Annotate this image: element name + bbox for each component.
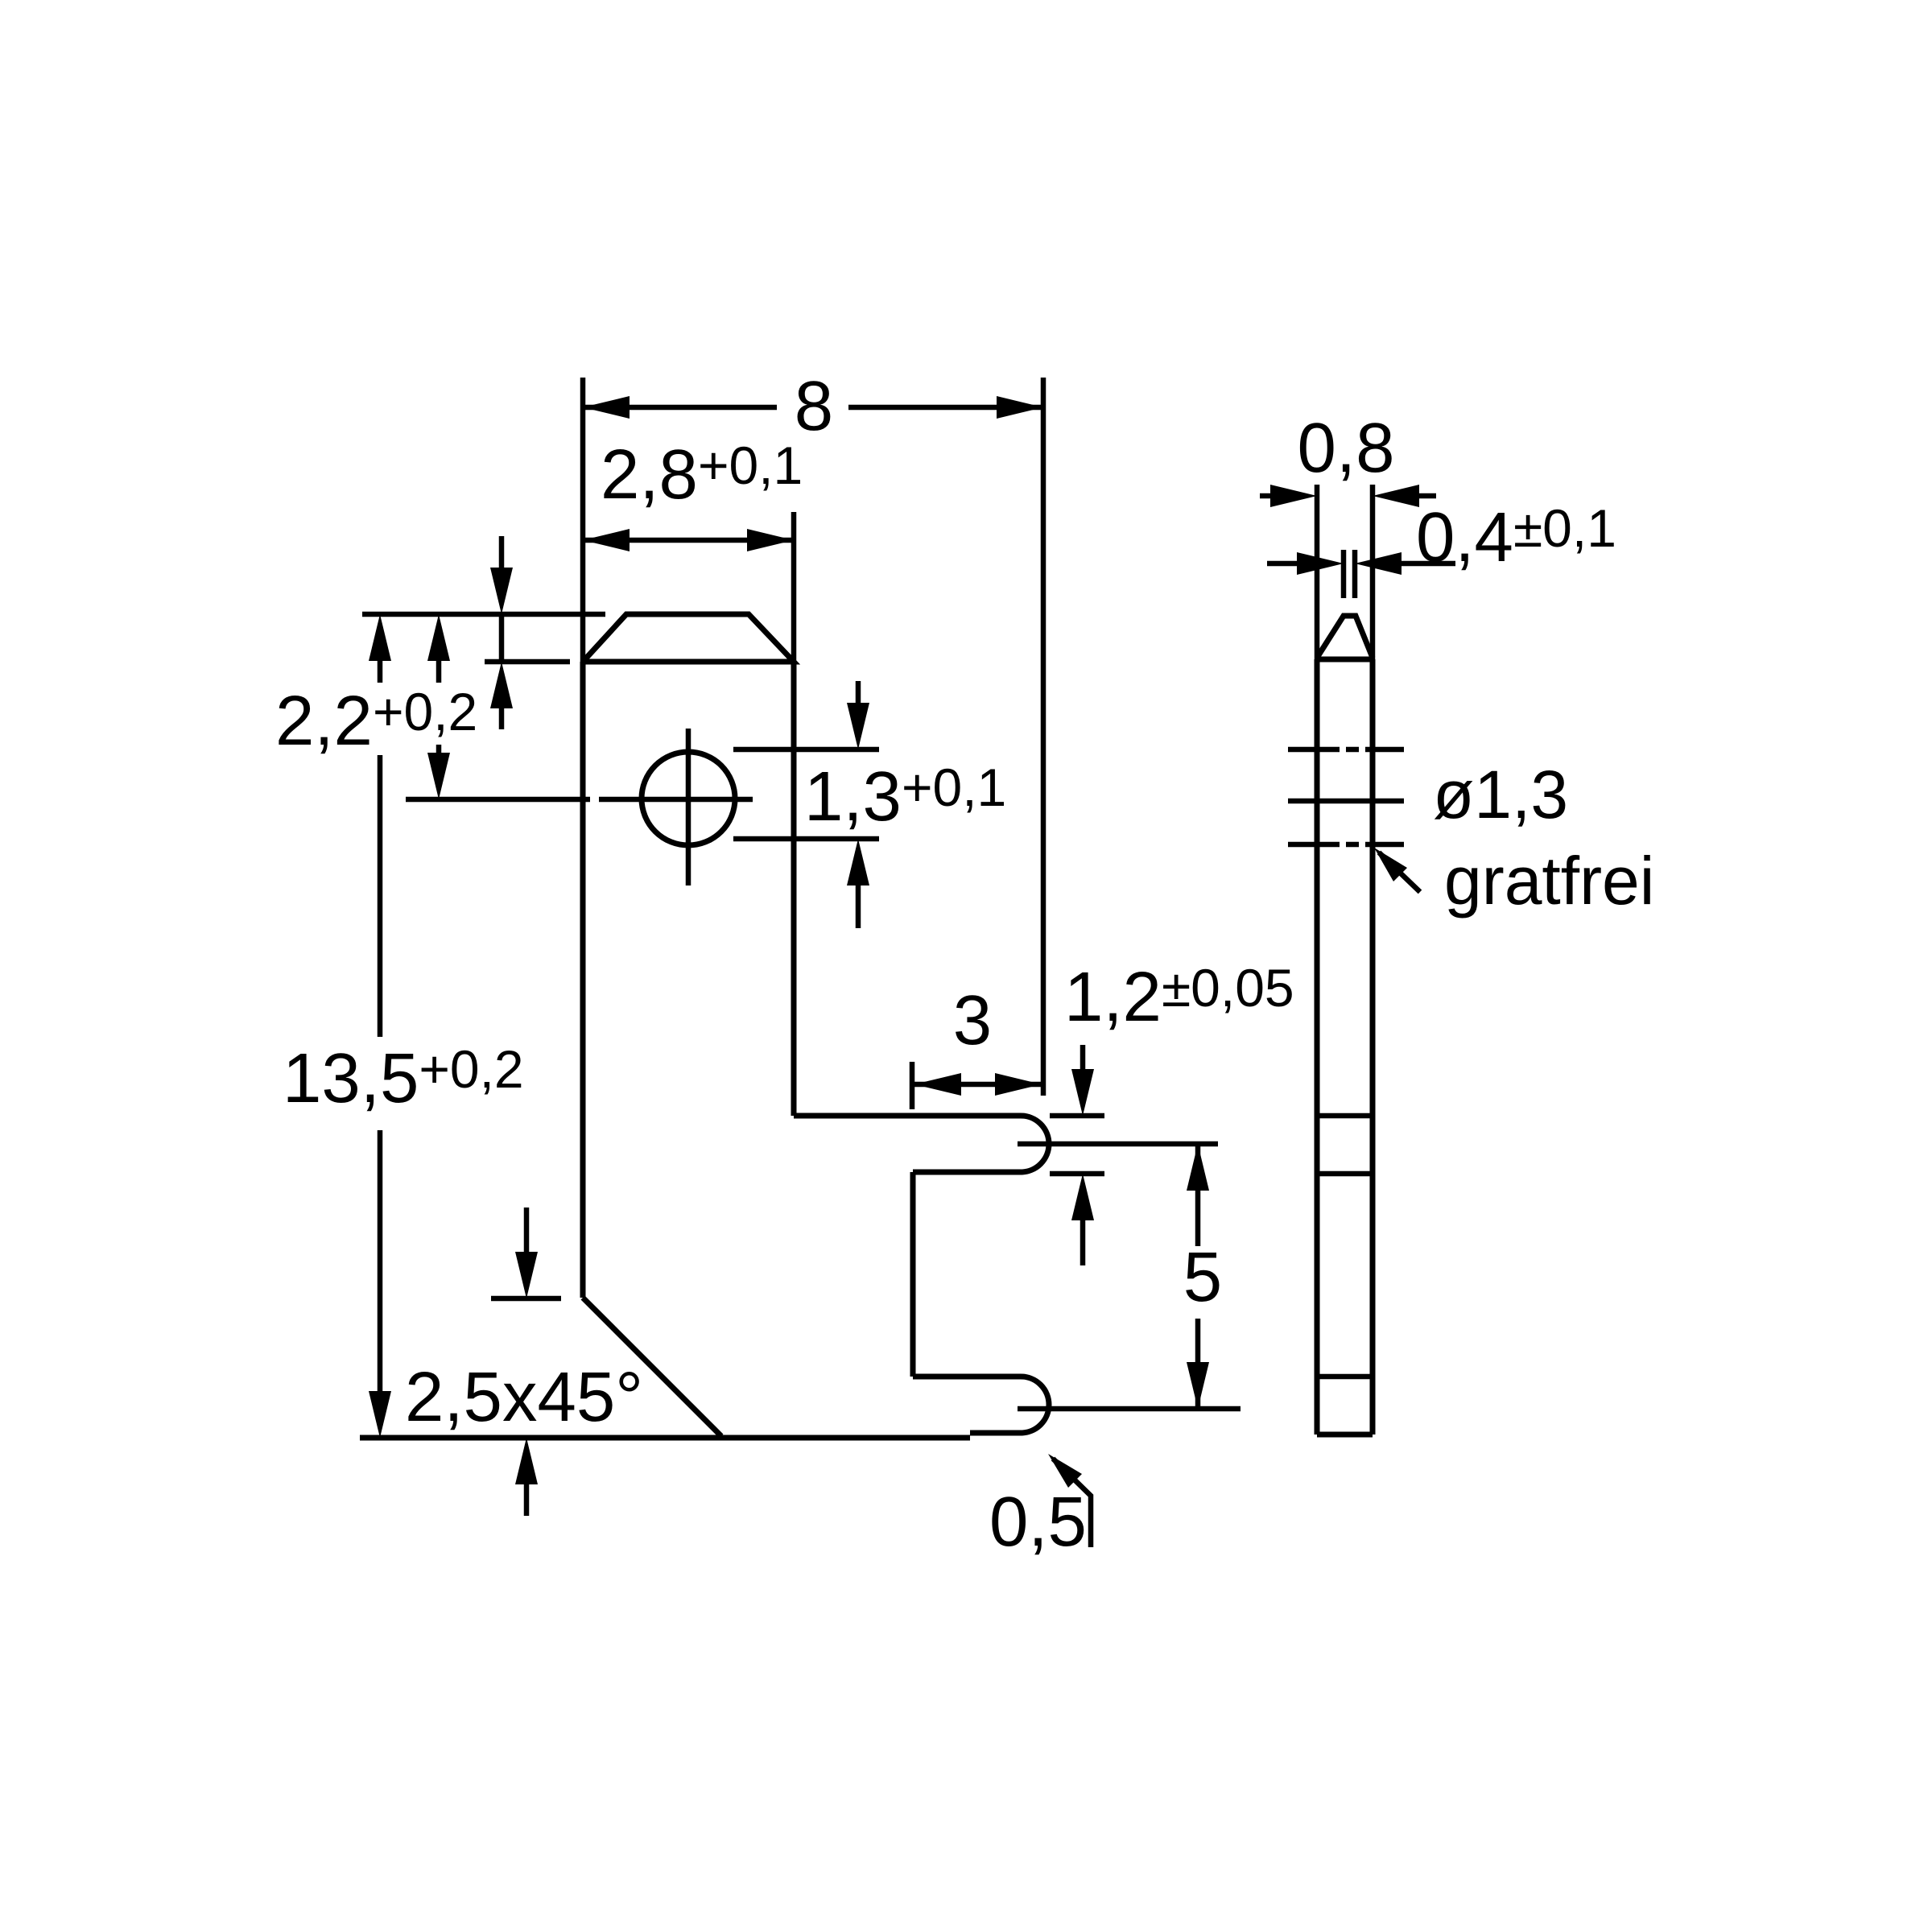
dim 2,8 arrow right xyxy=(747,529,794,551)
tab top reference line xyxy=(362,612,605,617)
lower finger bottom edge xyxy=(970,1430,1021,1436)
dim 1,3 lower extension xyxy=(733,836,879,842)
dim 3 arrow left xyxy=(914,1073,961,1096)
dim 3 tick xyxy=(910,1062,915,1109)
shoulder extension line xyxy=(485,659,570,665)
side view dash-dot line upper xyxy=(1288,747,1404,753)
dim 1,3 upper extension xyxy=(733,747,879,753)
svg-text:2,5x45°: 2,5x45° xyxy=(405,1358,643,1436)
hole crosshair horizontal xyxy=(599,797,753,803)
side view tip base line xyxy=(1317,657,1373,663)
side view finger bottom line xyxy=(1317,1171,1373,1177)
bevel down arrow above top line xyxy=(499,536,505,573)
dim 1,2 upper tick xyxy=(1050,1113,1104,1119)
side view dash-dot line lower xyxy=(1288,842,1404,848)
side view finger top line xyxy=(1317,1113,1373,1119)
chamfer tick line xyxy=(491,1296,561,1302)
svg-text:5: 5 xyxy=(1183,1238,1222,1316)
dim 2,2 down arrow at hole center xyxy=(427,753,450,799)
dim 1,2 down arrow xyxy=(1080,1045,1086,1074)
chamfer 2.5x45 xyxy=(583,1298,721,1436)
svg-text:gratfrei: gratfrei xyxy=(1444,843,1654,919)
gratfrei leader arrow xyxy=(1374,848,1407,881)
dim 2,8 line xyxy=(583,538,794,543)
tab right edge xyxy=(791,662,797,1116)
dim 5 upper tick xyxy=(1018,1141,1218,1147)
dim 2,8 arrow left xyxy=(583,529,630,551)
dim 5 lower tick xyxy=(1018,1406,1241,1412)
side view right edge xyxy=(1370,659,1376,1435)
dim 0,4 line left xyxy=(1267,561,1300,567)
svg-text:0,8: 0,8 xyxy=(1298,409,1395,487)
side view solid line middle xyxy=(1288,799,1404,804)
leader 0,5 arrow xyxy=(1048,1454,1082,1488)
dim 8 arrow right xyxy=(997,396,1043,419)
tab trapezoid head xyxy=(583,614,794,662)
svg-text:0,5: 0,5 xyxy=(989,1483,1087,1561)
slot inner edge xyxy=(910,1172,916,1377)
dim 5 up arrow xyxy=(1187,1144,1209,1191)
svg-text:8: 8 xyxy=(795,367,833,445)
dim 8 extension left xyxy=(580,378,586,662)
dim 5 line xyxy=(1195,1144,1201,1409)
dim 13,5 line middle segment xyxy=(378,755,383,1037)
gratfrei leader line xyxy=(1379,852,1420,892)
side view lower finger line xyxy=(1317,1374,1373,1380)
svg-text:3: 3 xyxy=(953,981,992,1059)
dim 0,8 line left xyxy=(1260,493,1274,499)
dim 13,5 line upper segment xyxy=(369,614,391,661)
dim 3 line xyxy=(912,1082,1042,1088)
hole center extension line xyxy=(406,797,590,803)
side view extension right xyxy=(1370,485,1376,659)
lower finger xyxy=(913,1377,1049,1433)
upper finger xyxy=(794,1116,1049,1172)
tab left edge xyxy=(580,662,586,1298)
dim 8 extension right xyxy=(1041,378,1046,1096)
chamfer up arrow below bottom xyxy=(515,1438,538,1484)
hole crosshair vertical xyxy=(686,729,691,885)
dim 8 arrow left xyxy=(583,396,630,419)
chamfer down arrow xyxy=(524,1207,530,1256)
dim 13,5 down arrow at bottom xyxy=(369,1391,391,1438)
side view pointed tip xyxy=(1317,616,1373,658)
dim 13,5 line lower segment xyxy=(378,1130,383,1393)
side view left edge xyxy=(1315,659,1320,1435)
dim 5 down arrow xyxy=(1187,1362,1209,1409)
side view extension left xyxy=(1315,485,1320,659)
dim 0,4 line right xyxy=(1355,552,1402,575)
dim 1,2 lower tick xyxy=(1050,1171,1104,1177)
dim 0,8 line right xyxy=(1373,485,1419,507)
bevel up arrow below shoulder line xyxy=(499,614,505,662)
side view bottom edge xyxy=(1317,1432,1373,1438)
dim 1,3 down arrow xyxy=(856,681,861,706)
dim 2,8 extension right xyxy=(791,512,797,662)
hole circle xyxy=(642,752,735,845)
leader 0,5 line xyxy=(1053,1459,1091,1547)
dim 1,2 up arrow xyxy=(1071,1174,1094,1220)
svg-text:ø1,3: ø1,3 xyxy=(1433,757,1568,832)
dim 1,3 up arrow xyxy=(847,839,869,885)
dim 8 line xyxy=(583,405,1043,411)
dim 2,2 up arrow at top line xyxy=(427,614,450,661)
dim 3 arrow right xyxy=(995,1073,1042,1096)
dim 0,4 sheet ticks xyxy=(1344,550,1355,598)
bottom edge xyxy=(360,1435,970,1441)
